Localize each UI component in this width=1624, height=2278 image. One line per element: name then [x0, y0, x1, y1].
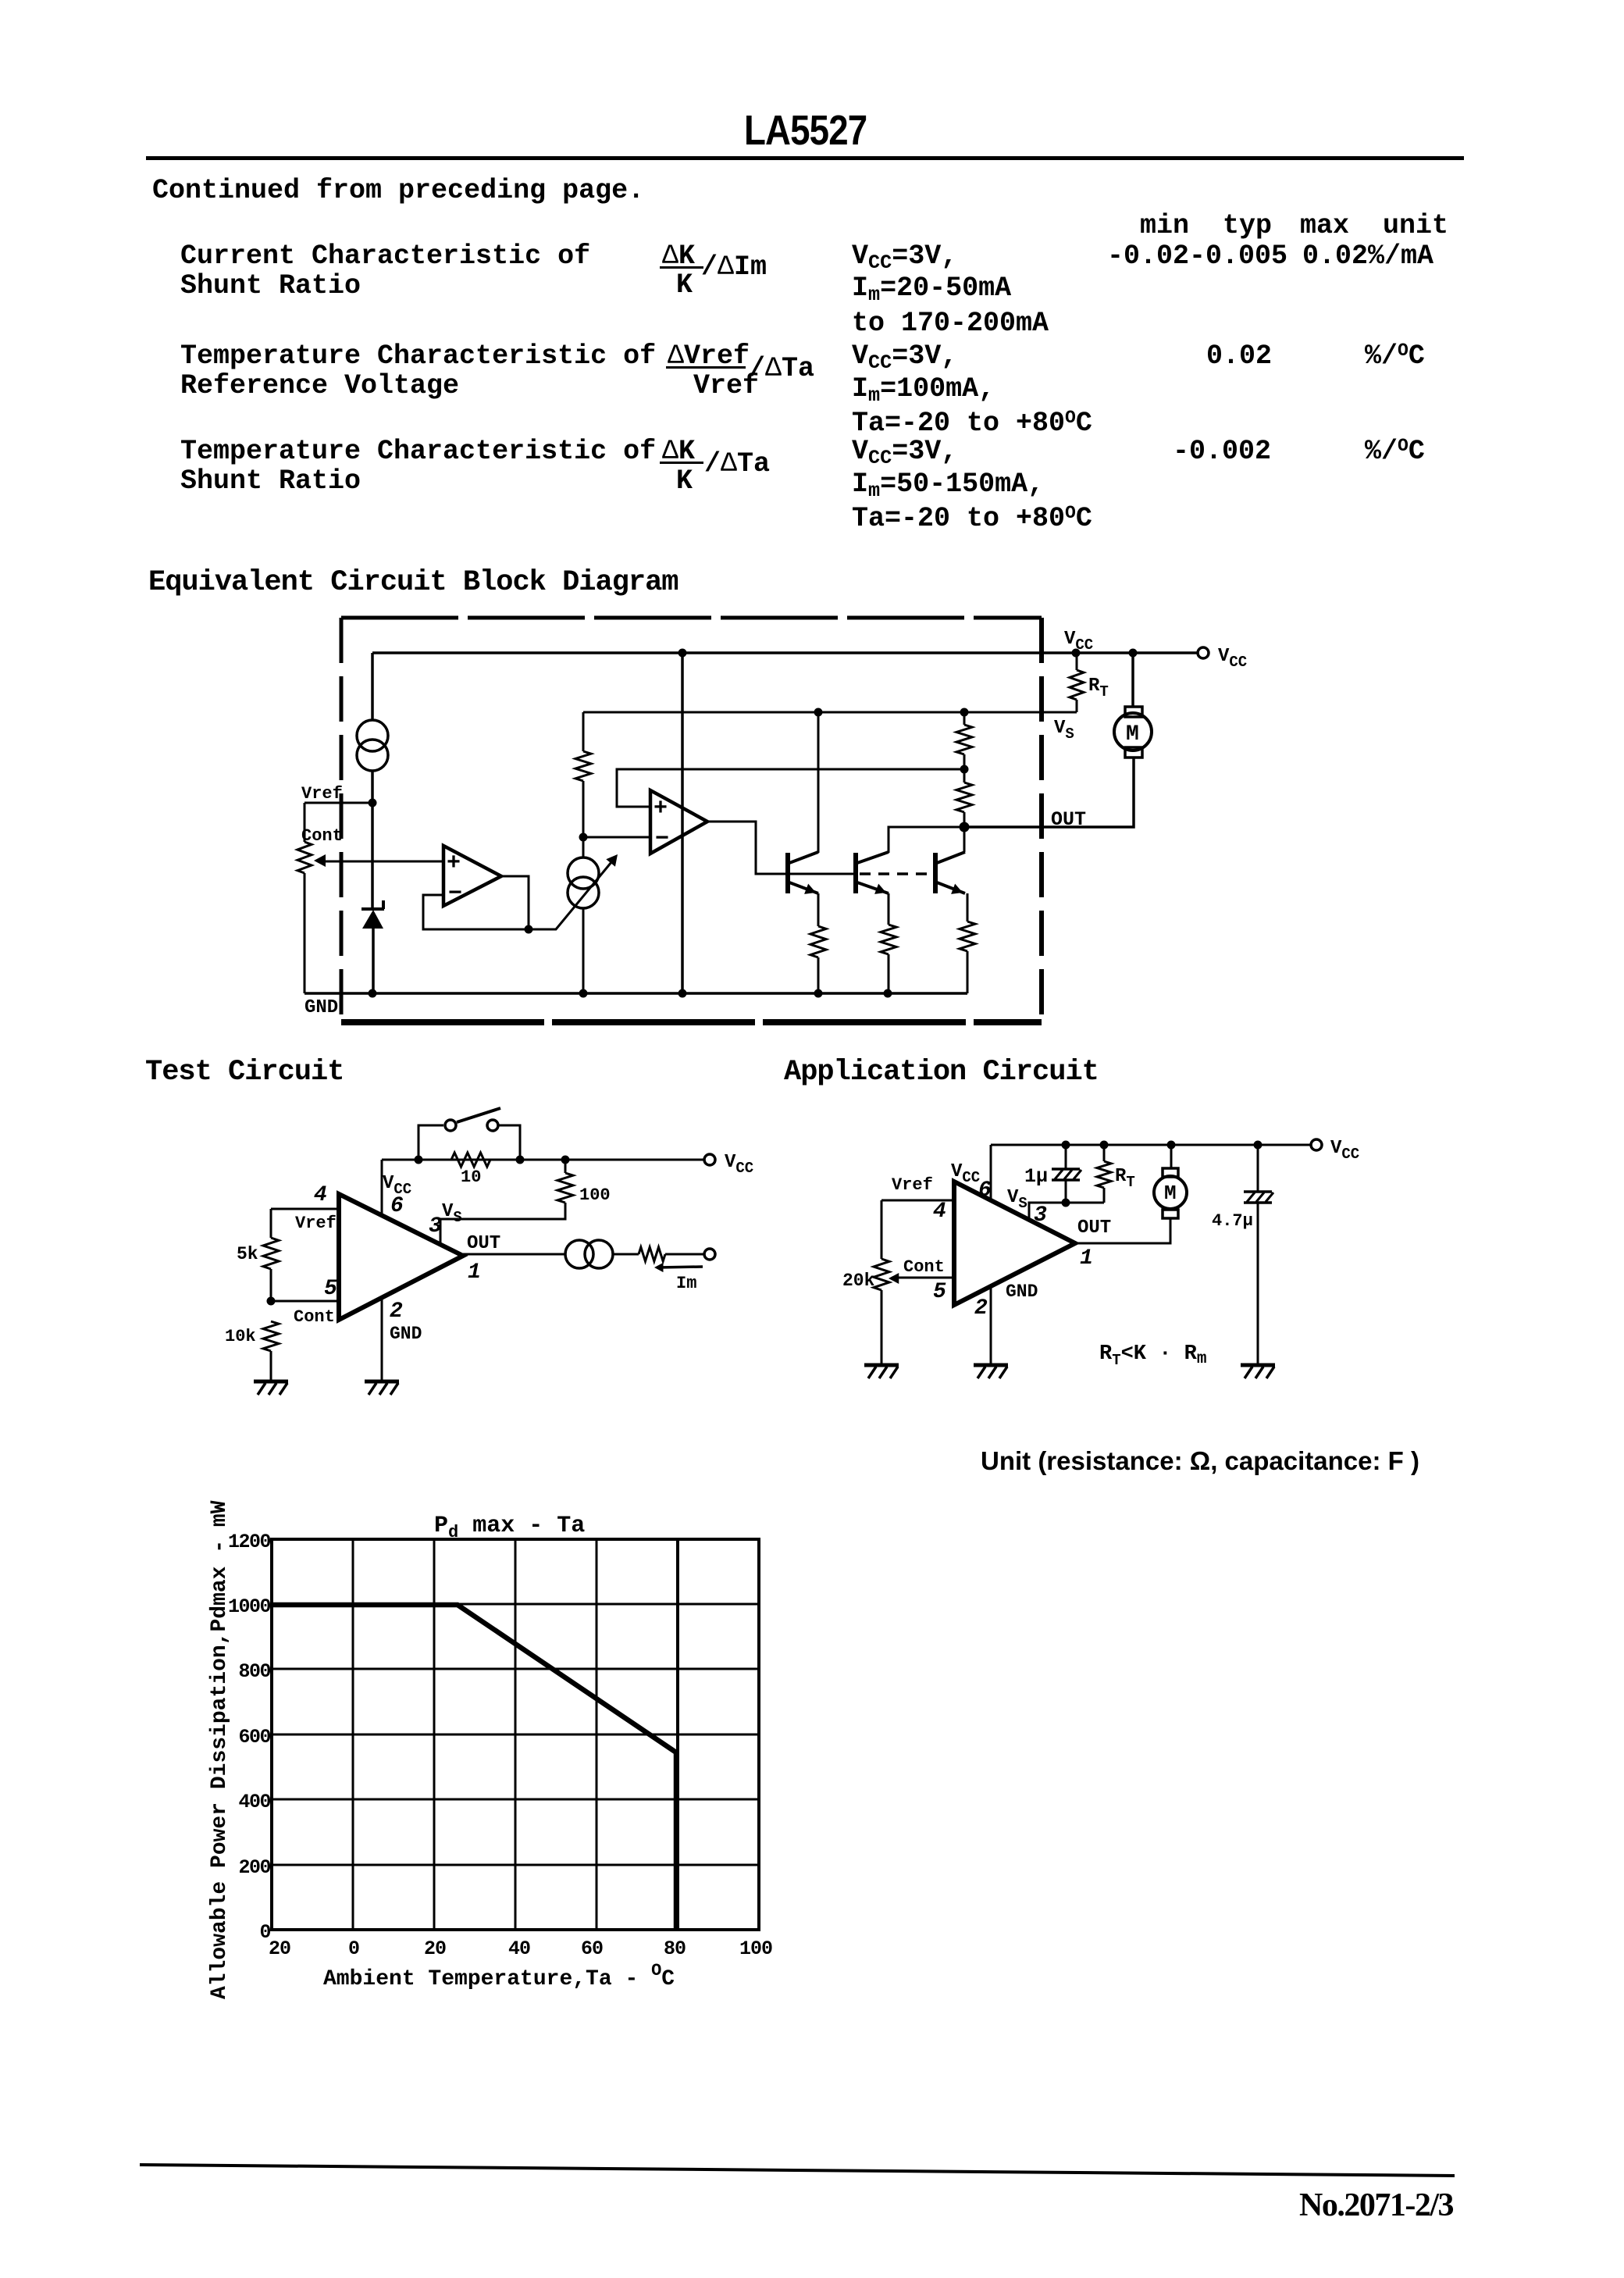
wire GND rail [304, 992, 967, 995]
op-amp/IC triangle (Test Circuit) [339, 1194, 463, 1320]
wire pin4 Vref (app) [881, 1200, 954, 1202]
zener diode D1 [371, 803, 374, 909]
svg-text:2: 2 [974, 1296, 988, 1321]
svg-text:M: M [1126, 722, 1139, 747]
wire Cont arrow to op-amp U1 [322, 861, 443, 863]
wire base link dashed [860, 872, 934, 875]
svg-text:20: 20 [269, 1938, 290, 1960]
wire pin3 VS (app) [1029, 1203, 1104, 1220]
wire CS1 top stem [371, 653, 374, 721]
wire VCC rail [372, 651, 1198, 654]
wire pin3 VS [440, 1203, 565, 1244]
ground (left) [254, 1380, 288, 1384]
svg-text:Cont: Cont [294, 1307, 335, 1327]
wire pin2 GND stub [381, 1298, 383, 1381]
svg-text:M: M [1164, 1182, 1177, 1205]
svg-text:VCC: VCC [1218, 646, 1247, 671]
svg-text:VCC: VCC [1330, 1138, 1359, 1163]
motor M1 [1125, 707, 1142, 717]
wire Q2 collector [889, 827, 964, 853]
svg-text:1: 1 [468, 1260, 481, 1285]
capacitor 4.7u [1257, 1145, 1259, 1192]
svg-text:80: 80 [664, 1938, 686, 1960]
resistor R2 [963, 712, 966, 725]
wire U2 inverting input [583, 836, 650, 839]
wire pin2 GND stub (app) [990, 1286, 992, 1365]
wire Q3 collector [963, 827, 966, 852]
node OUT junction [960, 822, 970, 832]
ground (center) [365, 1380, 399, 1384]
resistor R6 (Q3 emitter) [967, 893, 969, 922]
svg-text:0: 0 [348, 1938, 359, 1960]
svg-text:VS: VS [1054, 718, 1074, 743]
svg-text:+: + [447, 850, 461, 877]
ground (app right) [1241, 1364, 1275, 1367]
svg-text:No.2071-2/3: No.2071-2/3 [1299, 2187, 1453, 2223]
svg-text:1000: 1000 [228, 1595, 271, 1618]
resistor 5k [270, 1209, 272, 1238]
wire pin6 VCC stub (app) [990, 1145, 992, 1200]
node center-rail junction [678, 649, 687, 658]
svg-text:Im: Im [676, 1274, 696, 1293]
svg-text:20k: 20k [842, 1271, 875, 1291]
resistor Rm [639, 1247, 665, 1261]
svg-text:4: 4 [933, 1200, 946, 1224]
wire RT to VS [1076, 700, 1078, 712]
resistor R3 [963, 769, 966, 783]
node Vref junction [369, 799, 377, 807]
svg-text:Cont: Cont [903, 1257, 945, 1277]
node VS junctions [814, 708, 823, 717]
node VCC junctions [1072, 649, 1081, 658]
svg-text:Vref: Vref [301, 784, 343, 804]
svg-text:+: + [654, 796, 668, 822]
terminal Im [704, 1249, 715, 1260]
svg-text:−: − [448, 881, 462, 907]
node U1 output junction [525, 925, 533, 934]
svg-text:OUT: OUT [467, 1233, 500, 1254]
transistor body [853, 853, 858, 893]
svg-text:4.7μ: 4.7μ [1212, 1211, 1253, 1231]
wire U1 feedback loop [423, 895, 529, 929]
svg-text:Cont: Cont [301, 826, 343, 846]
wire VCC rail (test) [382, 1159, 704, 1161]
arrow Im [658, 1267, 703, 1267]
svg-text:1μ: 1μ [1024, 1165, 1048, 1188]
svg-text:100: 100 [579, 1185, 611, 1205]
svg-text:10k: 10k [225, 1327, 256, 1346]
wire U2 output to bases [707, 822, 856, 874]
node VS junction (app) [1062, 1199, 1070, 1207]
svg-text:GND: GND [304, 997, 338, 1018]
wire pin4 Vref [271, 1208, 339, 1210]
potentiometer 20k [881, 1200, 883, 1259]
current source CS1 [357, 720, 388, 751]
svg-text:Vref: Vref [295, 1214, 337, 1233]
wire pin6 VCC stub [381, 1160, 383, 1216]
svg-text:Pd max - Ta: Pd max - Ta [434, 1513, 585, 1542]
node rail junctions (app) [1062, 1141, 1070, 1150]
graph vertical gridlines [352, 1539, 354, 1930]
wire to resistor Rm [613, 1253, 639, 1256]
svg-text:VCC: VCC [725, 1152, 753, 1177]
svg-text:RT<K · Rm: RT<K · Rm [1099, 1342, 1206, 1369]
svg-text:60: 60 [581, 1938, 603, 1960]
wire CS1 to Vref node [371, 770, 374, 804]
svg-text:GND: GND [390, 1324, 422, 1344]
resistor 10k [263, 1321, 279, 1351]
node R1-CS2 junction [579, 833, 588, 842]
svg-text:5k: 5k [237, 1244, 258, 1264]
footer rule [140, 2165, 1455, 2176]
wire Vref stub [304, 802, 372, 804]
svg-text:5: 5 [933, 1280, 946, 1304]
wire pin5 Cont [271, 1300, 339, 1303]
svg-text:RT: RT [1088, 676, 1109, 701]
wire OUT pin1 (app) [1075, 1218, 1170, 1243]
svg-text:1200: 1200 [228, 1531, 271, 1553]
svg-text:2: 2 [390, 1299, 403, 1324]
resistor 100 [564, 1160, 567, 1173]
resistor RT [1076, 653, 1078, 670]
terminal VCC (app) [1311, 1139, 1322, 1150]
terminal VCC [1198, 647, 1209, 658]
svg-text:20: 20 [424, 1938, 446, 1960]
wire U1 output [501, 876, 529, 929]
potentiometer Vref-Cont [304, 803, 306, 842]
op-amp U2 [650, 790, 707, 854]
capacitor 1u [1065, 1145, 1067, 1169]
svg-text:−: − [655, 826, 669, 853]
wire to Im terminal [665, 1253, 704, 1256]
svg-text:10: 10 [461, 1168, 481, 1187]
transistor body [785, 853, 790, 893]
terminal VCC (test) [704, 1154, 715, 1165]
op-amp/IC triangle (Application Circuit) [954, 1182, 1075, 1305]
svg-text:VCC: VCC [1064, 629, 1093, 654]
wire VS rail [583, 711, 1077, 714]
wire OUT pin1 [463, 1253, 565, 1256]
svg-text:5: 5 [324, 1277, 337, 1301]
svg-text:3: 3 [1034, 1203, 1047, 1228]
node rail junctions [415, 1156, 423, 1164]
graph horizontal gridlines [272, 1603, 759, 1606]
node GND junctions [369, 989, 377, 998]
resistor 10 [451, 1153, 490, 1167]
svg-text:4: 4 [314, 1183, 327, 1207]
svg-text:3: 3 [429, 1214, 442, 1239]
node feedback junction [960, 765, 969, 774]
svg-text:Allowable Power Dissipation,Pd: Allowable Power Dissipation,Pdmax - mW [208, 1500, 232, 1999]
resistor R1 [582, 712, 585, 751]
resistor R4 (Q1 emitter) [817, 893, 820, 926]
ground (app center) [974, 1364, 1008, 1367]
resistor RT (app) [1103, 1145, 1106, 1161]
svg-text:0: 0 [259, 1921, 270, 1944]
current source CS3 [565, 1240, 593, 1268]
wire Cont arrow (app) [893, 1277, 954, 1279]
wire U2 noninverting feedback [617, 769, 964, 807]
IC boundary dashed box (Equivalent Circuit) [341, 616, 1042, 620]
svg-text:OUT: OUT [1051, 808, 1086, 831]
node Cont junction [267, 1297, 276, 1306]
wire motor to VCC rail [1131, 653, 1134, 708]
svg-text:GND: GND [1006, 1282, 1038, 1302]
transistor body [933, 853, 938, 893]
svg-text:1: 1 [1080, 1246, 1093, 1271]
svg-text:OUT: OUT [1077, 1217, 1111, 1239]
svg-text:100: 100 [739, 1938, 772, 1960]
wire center vertical [681, 653, 684, 993]
svg-text:6: 6 [978, 1178, 992, 1203]
resistor R5 (Q2 emitter) [888, 893, 890, 925]
ground (app left) [864, 1364, 899, 1367]
op-amp U1 [443, 846, 501, 906]
curve Pd max [272, 1605, 676, 1930]
graph frame [272, 1539, 759, 1930]
svg-text:RT: RT [1115, 1166, 1135, 1191]
svg-text:400: 400 [238, 1791, 270, 1813]
svg-text:600: 600 [238, 1726, 270, 1749]
wire VCC rail (app) [991, 1144, 1311, 1146]
svg-text:200: 200 [238, 1856, 270, 1879]
svg-text:6: 6 [390, 1194, 404, 1218]
wire OUT to motor [964, 757, 1134, 827]
svg-text:Vref: Vref [892, 1175, 933, 1195]
svg-text:40: 40 [508, 1938, 530, 1960]
wire control arrow to CS2 [529, 857, 615, 929]
switch S1 [418, 1125, 443, 1160]
svg-text:Ambient Temperature,Ta - OC: Ambient Temperature,Ta - OC [323, 1961, 675, 1991]
current source CS2 (variable) [582, 837, 585, 858]
motor M2 [1170, 1145, 1173, 1168]
wire Q1 collector [817, 712, 820, 853]
svg-text:800: 800 [238, 1660, 270, 1683]
svg-text:VS: VS [442, 1201, 462, 1226]
